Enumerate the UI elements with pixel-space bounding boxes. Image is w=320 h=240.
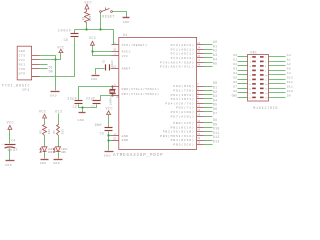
wire RESET net horizontal [75, 30, 114, 45]
svg-text:AVCC: AVCC [122, 50, 131, 54]
svg-text:10k: 10k [88, 15, 92, 21]
connector row 4: pins 7/8 [233, 67, 291, 72]
svg-text:M10X2THIN: M10X2THIN [253, 106, 278, 110]
pin stub TXD [32, 68, 40, 70]
capacitor C4 10uF (polarized) [1, 138, 18, 152]
svg-text:C4: C4 [11, 138, 15, 142]
wire VCC to C3 [108, 115, 110, 128]
ground (C3/IC) [104, 152, 114, 158]
pin PC4(ADC4/SDA) stub + wire + label A4 [160, 57, 217, 64]
crystal Q1 [110, 87, 116, 96]
svg-text:C5: C5 [102, 59, 105, 63]
svg-text:PB7(XTAL2/TOSC2): PB7(XTAL2/TOSC2) [122, 92, 160, 96]
svg-text:22pF: 22pF [86, 96, 96, 100]
svg-text:10nF: 10nF [95, 123, 103, 127]
svg-text:GND: GND [91, 78, 98, 81]
wire C6 bottom to FTDI DTR [32, 38, 75, 77]
svg-text:A0: A0 [287, 67, 291, 70]
svg-text:R2: R2 [53, 130, 56, 134]
wire TXD short [40, 68, 48, 70]
svg-text:VCC: VCC [39, 110, 46, 114]
wire C3 bottom to GND pins and gnd [108, 132, 110, 151]
svg-text:FTDI_BASIC: FTDI_BASIC [2, 84, 30, 88]
svg-text:PB5(SCK): PB5(SCK) [173, 143, 194, 147]
svg-text:D8: D8 [233, 90, 237, 93]
vcc symbol VCC (top, above R1) [84, 1, 92, 11]
connector row 7: pins 13/14 [233, 81, 293, 86]
svg-text:TXD: TXD [19, 67, 26, 71]
svg-text:A3: A3 [287, 72, 291, 75]
svg-text:GRN: GRN [61, 151, 66, 154]
pin PC0(ADC0) stub + wire + label A0 [171, 40, 218, 47]
node junction gnd pin8 [107, 134, 109, 136]
wire XTAL2 net (PB7 to C1 top) [101, 96, 112, 101]
svg-text:GND: GND [50, 94, 57, 97]
svg-text:D9: D9 [287, 94, 291, 97]
node junction AVCC [91, 50, 93, 52]
svg-text:VCC: VCC [122, 54, 129, 58]
wire C5 left to gnd [96, 69, 105, 75]
connector row 6: pins 11/12 [233, 76, 293, 81]
pin PD1(TXD) stub + wire + label D1 [173, 86, 217, 93]
pin GND22 stub [112, 140, 119, 142]
node junction R1/reset [85, 28, 87, 30]
vcc symbol (FTDI) [57, 45, 64, 52]
svg-text:A1: A1 [287, 58, 291, 61]
wire LED to gnd [44, 153, 46, 159]
node junction caps gnd [81, 106, 83, 108]
vcc symbol (LED1) [39, 110, 47, 118]
svg-text:D7: D7 [213, 111, 217, 115]
svg-text:100nF: 100nF [58, 29, 72, 33]
svg-text:VCC: VCC [84, 1, 92, 5]
svg-text:AREF: AREF [122, 66, 131, 70]
ground (C4) [5, 161, 15, 167]
ground (AREF cap) [91, 76, 100, 82]
svg-text:A4: A4 [287, 54, 291, 57]
pin stub VCC [32, 59, 40, 61]
ground (crystal caps) [78, 113, 86, 122]
svg-text:JP1: JP1 [22, 89, 31, 93]
wire caps bottoms to gnd [79, 105, 97, 108]
switch S1 RESET [100, 8, 115, 20]
svg-text:C1: C1 [91, 105, 95, 109]
connector U$1 M10X2THIN [248, 51, 279, 110]
svg-text:R3: R3 [39, 130, 42, 134]
svg-text:C6: C6 [64, 38, 68, 42]
svg-text:GND: GND [104, 155, 111, 158]
wire C4 to gnd [9, 149, 11, 161]
wire LED to gnd [58, 153, 60, 159]
svg-text:VCC: VCC [19, 58, 26, 62]
svg-text:C2: C2 [73, 105, 77, 109]
svg-text:D1: D1 [233, 58, 237, 61]
capacitor C6 [58, 29, 79, 42]
svg-text:D0: D0 [49, 70, 53, 74]
wire R3 to LED [44, 136, 46, 147]
wire vcc to R2 [44, 119, 46, 125]
wire RXI short [40, 64, 48, 66]
svg-text:CTS: CTS [19, 53, 26, 57]
node junction CTS/VCC row [54, 58, 56, 60]
svg-text:D12: D12 [287, 81, 293, 84]
pin PD0(RXD) stub + wire + label D0 [173, 81, 217, 88]
svg-text:A5: A5 [213, 62, 217, 66]
svg-text:D13: D13 [213, 140, 220, 144]
wire C5 right to AREF pin [111, 68, 112, 70]
svg-text:D10: D10 [287, 90, 293, 93]
connector row 2: pins 3/4 [233, 58, 291, 63]
wire VCC row to arrow [40, 53, 61, 60]
svg-text:RESET: RESET [102, 16, 115, 20]
ground (LED2) [53, 160, 62, 165]
capacitor C5 (AREF) [102, 59, 114, 70]
connector JP1 FTDI_BASIC [2, 46, 32, 93]
resistor R3 [39, 125, 51, 136]
node junction crystal top [111, 85, 113, 87]
pin GND8 stub [112, 135, 119, 137]
svg-text:D0: D0 [233, 54, 237, 57]
node junction switch/reset [99, 28, 101, 30]
capacitor C1 [86, 96, 101, 109]
svg-text:GND: GND [122, 138, 129, 142]
connector row 10: pins 19/20 [232, 94, 291, 99]
wire VCC to C4 [9, 130, 11, 144]
svg-text:GND: GND [232, 94, 238, 97]
svg-text:GND: GND [123, 21, 130, 24]
connector row 3: pins 5/6 [233, 63, 291, 68]
svg-text:D5: D5 [233, 76, 237, 79]
pin PC1(ADC1) stub + wire + label A1 [171, 44, 218, 51]
wire to GND pin 22 [109, 140, 112, 142]
wire D13 to R3 [58, 114, 60, 125]
pin stub RXI [32, 64, 40, 66]
svg-text:VCC: VCC [89, 36, 96, 40]
LED LED1 [40, 147, 54, 154]
pin VCC stub + number 7 [112, 55, 119, 57]
node junction crystal bottom [111, 94, 113, 96]
vcc symbol (C4) [7, 120, 14, 129]
svg-text:GND: GND [19, 49, 26, 53]
svg-text:DTR: DTR [19, 71, 26, 75]
svg-text:D3: D3 [233, 67, 237, 70]
svg-text:D13: D13 [55, 110, 62, 114]
pin PB2(SS/OC1B) stub + wire + label D10 [163, 127, 220, 134]
wire R1 bottom to reset net [86, 23, 88, 30]
pin PB5(SCK) stub + wire + label D13 [173, 140, 219, 147]
connector row 1: pins 1/2 [233, 54, 291, 59]
connector row 8: pins 15/16 [233, 85, 293, 90]
pin PB6 stub + number 9 [112, 86, 119, 88]
LED LED2 [53, 147, 67, 154]
ground (switch) [123, 18, 130, 24]
pin PD5(T1) stub + wire + label D5 [176, 103, 217, 110]
svg-text:A2: A2 [287, 63, 291, 66]
pin AREF stub + number 21 [112, 68, 119, 70]
resistor R2 [53, 125, 65, 136]
wire switch left contact down to reset net [100, 13, 102, 30]
connector row 9: pins 17/18 [233, 90, 293, 95]
pin PB4(MISO) stub + wire + label D12 [171, 135, 220, 142]
svg-text:10uF: 10uF [7, 148, 18, 152]
wire to GND pin 8 [109, 135, 112, 137]
wire R2 to LED [58, 136, 60, 147]
IC U1 ATMEGA328P [113, 34, 197, 158]
ground (LED1) [40, 160, 49, 165]
svg-text:ATMEGA328P_PDIP: ATMEGA328P_PDIP [113, 154, 163, 158]
svg-text:GRN: GRN [48, 151, 53, 154]
pin PB0(ICP) stub + wire + label D8 [173, 118, 217, 125]
capacitor C2 [67, 96, 82, 109]
pin PD2(INT0) stub + wire + label D2 [171, 90, 218, 97]
svg-text:D11: D11 [287, 85, 293, 88]
wire VCC to AVCC and VCC pins [93, 46, 112, 56]
svg-text:RXI: RXI [19, 62, 26, 66]
pin PB1(OC1A) stub + wire + label D9 [171, 122, 218, 129]
pin PD3(INT1) stub + wire + label D3 [171, 94, 218, 101]
pin stub CTS [32, 55, 40, 57]
svg-text:D2: D2 [233, 63, 237, 66]
pin PC3(ADC3) stub + wire + label A3 [171, 53, 218, 60]
svg-text:GND: GND [53, 162, 60, 165]
svg-text:D4: D4 [233, 72, 237, 75]
pin PC2(ADC2) stub + wire + label A2 [171, 49, 218, 56]
svg-text:D13: D13 [287, 76, 293, 79]
node junction gnd pin22 [107, 139, 109, 141]
svg-text:22pF: 22pF [67, 96, 77, 100]
pin PC6/RESET stub + number 1 [112, 44, 119, 46]
pin PB7 stub + number 10 [112, 95, 119, 97]
svg-text:GND: GND [78, 119, 85, 122]
wire gnd drop [82, 108, 84, 113]
svg-text:GND: GND [5, 164, 12, 167]
pin stub DTR [32, 76, 40, 78]
svg-text:PB6(XTAL1/TOSC1): PB6(XTAL1/TOSC1) [122, 87, 160, 91]
svg-text:330: 330 [62, 129, 65, 134]
svg-text:D7: D7 [233, 85, 237, 88]
svg-text:D6: D6 [233, 81, 237, 84]
pin AVCC stub + number 20 [112, 51, 119, 53]
svg-text:16MHz: 16MHz [109, 96, 112, 106]
pin PD6(AIN0) stub + wire + label D6 [171, 107, 218, 114]
wire CTS to gnd drop [40, 56, 56, 91]
pin PD7(AIN1) stub + wire + label D7 [171, 111, 218, 118]
svg-text:PD7(AIN1): PD7(AIN1) [171, 114, 195, 118]
wire switch right contact to gnd [113, 12, 127, 18]
ground (FTDI) [50, 92, 60, 98]
vcc symbol (AVCC net) [89, 36, 96, 45]
svg-text:C3: C3 [100, 132, 104, 136]
svg-text:VCC: VCC [106, 107, 113, 111]
pin PC5(ADC5/SCL) stub + wire + label A5 [160, 62, 217, 69]
svg-text:PC5(ADC5/SCL): PC5(ADC5/SCL) [160, 65, 195, 69]
vcc symbol (C3) [106, 107, 113, 115]
svg-text:330: 330 [48, 129, 51, 134]
pin PB3(MOSI/OC2) stub + wire + label D11 [160, 131, 219, 138]
wire XTAL1 net (PB6 to C2 top) [79, 87, 112, 101]
pin PD4(XCK/T0) stub + wire + label D4 [165, 98, 217, 105]
connector row 5: pins 9/10 [233, 72, 291, 77]
svg-text:PC6(/RESET): PC6(/RESET) [122, 43, 148, 47]
capacitor C3 [95, 123, 113, 136]
svg-text:R1: R1 [82, 16, 86, 20]
resistor R1 [82, 12, 93, 23]
svg-text:VCC: VCC [7, 120, 14, 124]
svg-text:GND: GND [40, 162, 47, 165]
